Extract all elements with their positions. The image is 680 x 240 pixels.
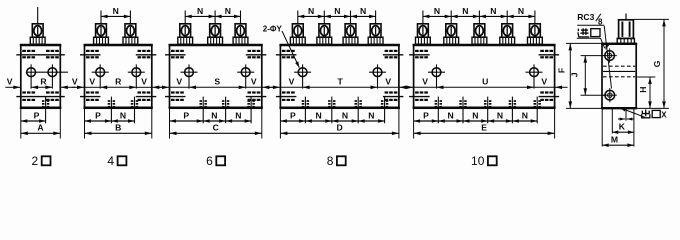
8-port caption 8口: [327, 154, 346, 168]
8-port corner thread hatching: [282, 50, 398, 101]
svg-text:N: N: [225, 6, 231, 16]
10-port corner thread hatching: [415, 50, 553, 101]
bottom outlet passage at x=251: [247, 97, 254, 124]
svg-text:N: N: [472, 110, 478, 120]
10-port cap separation lines: [409, 55, 559, 97]
G dimension (right, overall height): [634, 19, 669, 108]
svg-text:V: V: [176, 77, 182, 87]
top fitting at x=479: [472, 11, 487, 45]
4-port cap separation lines: [80, 55, 156, 97]
svg-text:2: 2: [32, 154, 39, 168]
bottom outlet passage at x=203: [200, 97, 207, 124]
8-port bottom dimension N: [305, 110, 331, 123]
2-PhiY hole callout label: [263, 24, 300, 67]
bottom outlet passage at x=305: [302, 97, 309, 124]
10-port bottom dimension N: [488, 110, 513, 123]
10-port face port circle: [428, 64, 445, 88]
side view body: [601, 43, 637, 108]
8-port cap separation lines: [276, 55, 404, 97]
svg-text:N: N: [342, 110, 348, 120]
svg-text:C: C: [213, 122, 219, 132]
svg-text:V: V: [541, 77, 547, 87]
2-port cap separation lines: [16, 55, 65, 97]
svg-text:B: B: [115, 122, 121, 132]
8-port V and T dimension row: [267, 76, 412, 89]
svg-text:N: N: [197, 6, 203, 16]
bottom outlet passage at x=111: [108, 97, 115, 124]
svg-text:V: V: [7, 76, 13, 86]
10-port top spacing dimension N: [507, 6, 535, 18]
top fitting at x=185: [178, 11, 193, 45]
top fitting at x=376: [368, 11, 383, 45]
F dimension (left, body height): [557, 43, 602, 108]
4-port top spacing dimension N: [101, 6, 130, 18]
svg-text:E: E: [481, 122, 487, 132]
svg-text:V: V: [141, 77, 147, 87]
2-port edge extension lines: [21, 109, 61, 139]
leader from RC3/8 to outlet port: [604, 26, 611, 89]
6-port face port circle: [181, 64, 198, 88]
6-port caption 6口: [206, 154, 225, 168]
bottom outlet passage at x=46: [42, 97, 49, 124]
top fitting at x=451: [444, 11, 459, 45]
svg-text:N: N: [490, 6, 496, 16]
10-port bottom dimension N: [438, 110, 463, 123]
RC3/8 thread label: [577, 12, 604, 26]
6-port cap separation lines: [165, 55, 266, 97]
svg-text:P: P: [95, 110, 101, 120]
inlet label (CJK jin-kou): [578, 28, 600, 37]
J dimension (inlet-outlet distance): [570, 56, 605, 96]
4-port overall width dimension B: [85, 122, 152, 135]
6-port bottom dimension P: [170, 110, 204, 123]
6-port V and S dimension row: [157, 76, 275, 89]
bottom outlet passage at x=358: [355, 97, 362, 124]
2-port face port circle: [48, 64, 57, 88]
side view hidden passage lines: [603, 66, 635, 77]
8-port face port circle: [369, 64, 386, 88]
K dimension: [612, 121, 634, 134]
6-port bottom dimension N: [226, 110, 252, 123]
svg-text:N: N: [434, 6, 440, 16]
4-port V and R dimension row: [72, 76, 165, 89]
svg-text:N: N: [334, 6, 340, 16]
svg-text:N: N: [113, 6, 119, 16]
2-port overall width dimension A: [21, 122, 61, 135]
4-port edge extension lines: [85, 109, 152, 139]
top fitting at x=535: [528, 11, 543, 45]
4-port corner thread hatching: [86, 50, 150, 101]
4-port bottom dimension N: [111, 110, 134, 123]
8-port top spacing dimension N: [298, 6, 325, 18]
4-port face port circle: [92, 64, 109, 88]
top fitting at x=507: [500, 11, 515, 45]
10-port manifold body: [413, 45, 556, 109]
10-port bottom dimension P: [414, 110, 439, 123]
4-port bottom dimension P: [85, 110, 112, 123]
svg-text:V: V: [289, 77, 295, 87]
svg-text:N: N: [522, 110, 528, 120]
8-port manifold body: [279, 45, 400, 109]
6-port edge extension lines: [170, 109, 262, 139]
svg-text:N: N: [120, 110, 126, 120]
8-port bottom dimension N: [332, 110, 358, 123]
8-port bottom dimension N: [358, 110, 384, 123]
svg-text:N: N: [315, 110, 321, 120]
svg-text:G: G: [652, 60, 662, 67]
svg-text:N: N: [497, 110, 503, 120]
6-port top spacing dimension N: [215, 6, 240, 18]
top fitting at x=298: [290, 11, 305, 45]
10-port bottom dimension N: [463, 110, 488, 123]
10-port edge extension lines: [414, 109, 555, 139]
10-port bottom dimension N: [512, 110, 537, 123]
svg-text:T: T: [337, 76, 343, 86]
H dimension (step height): [637, 77, 655, 108]
4-port face port circle: [128, 64, 145, 88]
svg-text:A: A: [37, 122, 43, 132]
svg-text:K: K: [619, 121, 626, 131]
inlet port circle: [603, 48, 617, 62]
svg-text:RC3: RC3: [577, 12, 594, 22]
2-port face port circle: [26, 64, 68, 88]
svg-text:R: R: [40, 76, 47, 86]
6-port overall width dimension C: [170, 122, 262, 135]
svg-text:10: 10: [471, 154, 485, 168]
leader from outlet X label to bottom port: [621, 108, 645, 117]
svg-text:N: N: [235, 110, 241, 120]
svg-text:V: V: [89, 77, 95, 87]
svg-text:R: R: [115, 76, 122, 86]
svg-text:8: 8: [327, 154, 334, 168]
10-port caption 10口: [471, 154, 497, 168]
10-port overall width dimension E: [414, 122, 555, 135]
6-port top spacing dimension N: [185, 6, 215, 18]
8-port face port circle: [294, 64, 311, 88]
svg-text:N: N: [462, 6, 468, 16]
M dimension: [602, 134, 634, 147]
small offset dimension below outlet: [618, 118, 634, 121]
10-port top spacing dimension N: [479, 6, 507, 18]
bottom outlet passage at x=512: [509, 97, 516, 124]
svg-text:H: H: [638, 86, 648, 92]
svg-text:V: V: [422, 77, 428, 87]
top fitting at x=38: [30, 7, 45, 44]
10-port V and U dimension row: [401, 76, 568, 89]
6-port manifold body: [169, 45, 263, 109]
top fitting at x=240: [233, 11, 248, 45]
10-port face port circle: [526, 64, 543, 88]
6-port bottom dimension N: [203, 110, 225, 123]
svg-text:P: P: [34, 110, 40, 120]
bottom outlet passage at x=134: [131, 97, 138, 124]
2-port manifold body: [20, 45, 62, 109]
svg-text:D: D: [336, 122, 342, 132]
svg-text:J: J: [570, 72, 580, 77]
outlet X label (CJK chu-kou X): [619, 108, 667, 120]
8-port top spacing dimension N: [351, 6, 376, 18]
svg-text:6: 6: [206, 154, 213, 168]
svg-text:N: N: [211, 110, 217, 120]
underline + leader from inlet label to inlet port: [577, 38, 609, 49]
svg-text:V: V: [385, 77, 391, 87]
svg-text:V: V: [72, 76, 78, 86]
2-port bottom dimension P: [21, 110, 46, 123]
side view bottom extension lines: [602, 109, 634, 147]
svg-text:P: P: [183, 110, 189, 120]
bottom outlet passage at x=226: [222, 97, 229, 124]
8-port bottom dimension P: [280, 110, 305, 123]
8-port edge extension lines: [280, 109, 399, 139]
top fitting at x=215: [208, 11, 223, 45]
svg-text:N: N: [308, 6, 314, 16]
svg-text:2-ΦY: 2-ΦY: [263, 24, 283, 33]
svg-text:P: P: [290, 110, 296, 120]
outlet port circle: [603, 88, 617, 102]
svg-text:F: F: [557, 68, 567, 73]
bottom outlet passage at x=463: [459, 97, 466, 124]
svg-text:N: N: [518, 6, 524, 16]
top fitting at x=130: [123, 11, 138, 45]
svg-text:N: N: [447, 110, 453, 120]
top fitting at x=324: [317, 11, 332, 45]
bottom outlet passage at x=385: [381, 97, 388, 124]
svg-text:N: N: [360, 6, 366, 16]
top fitting at x=423: [416, 11, 431, 45]
svg-text:N: N: [368, 110, 374, 120]
svg-text:V: V: [251, 77, 257, 87]
svg-text:U: U: [482, 76, 488, 86]
top fitting at x=350: [343, 11, 358, 45]
2-port V and R dimension row: [5, 76, 78, 89]
6-port face port circle: [237, 64, 254, 88]
svg-text:4: 4: [107, 154, 114, 168]
8-port overall width dimension D: [280, 122, 399, 135]
svg-text:X: X: [661, 110, 667, 119]
svg-text:S: S: [214, 76, 220, 86]
10-port top spacing dimension N: [423, 6, 451, 18]
bottom outlet passage at x=488: [484, 97, 491, 124]
bottom outlet passage at x=537: [534, 97, 541, 124]
side view top fitting: [617, 14, 634, 44]
10-port top spacing dimension N: [451, 6, 479, 18]
bottom outlet passage at x=438: [435, 97, 442, 124]
svg-text:M: M: [611, 134, 618, 144]
bottom outlet passage at x=332: [328, 97, 335, 124]
8-port top spacing dimension N: [324, 6, 350, 18]
4-port caption 4口: [107, 154, 126, 168]
4-port manifold body: [84, 45, 153, 109]
top fitting at x=101: [94, 11, 109, 45]
2-port corner thread hatching: [22, 50, 59, 101]
svg-text:P: P: [423, 110, 429, 120]
2-port caption 2口: [32, 154, 51, 168]
6-port corner thread hatching: [171, 50, 260, 101]
